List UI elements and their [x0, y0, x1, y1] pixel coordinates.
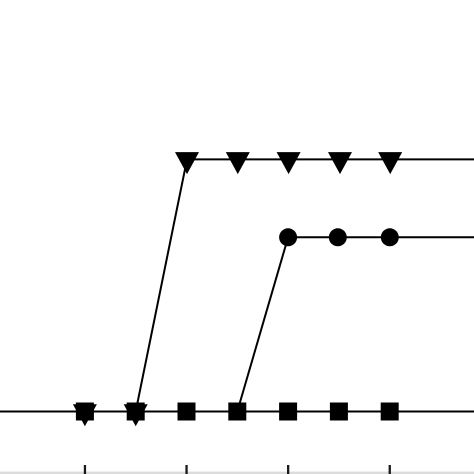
triangle marker T1 (top line) — [175, 152, 199, 174]
square marker S3 — [178, 403, 196, 421]
axis tick 2 — [185, 465, 187, 474]
triangle-series top line — [187, 158, 474, 160]
axis tick 3 — [287, 465, 289, 474]
triangle marker T4 — [328, 152, 352, 174]
square marker S1 — [76, 403, 94, 421]
triangle marker T5 — [378, 152, 402, 174]
square marker S6 — [330, 403, 348, 421]
square marker S7 — [381, 403, 399, 421]
triangle-series rising segment — [136, 159, 187, 411]
circle marker C1 — [279, 228, 297, 246]
triangle marker T3 — [277, 152, 301, 174]
triangle marker T2 — [226, 152, 250, 174]
axis tick 4 — [389, 465, 391, 474]
axis spine (gray) — [0, 472, 474, 474]
square marker S2 — [127, 403, 145, 421]
triangle marker on baseline at x=84.9 — [73, 404, 97, 426]
circle-series rising segment — [237, 237, 288, 411]
circle marker C3 — [381, 228, 399, 246]
circle marker C2 — [329, 228, 347, 246]
axis tick 1 — [84, 465, 86, 474]
square-series baseline — [0, 411, 474, 413]
circle-series top line — [288, 236, 474, 238]
triangle marker on baseline at x=135.7 — [124, 404, 148, 426]
square marker S5 — [279, 403, 297, 421]
square marker S4 — [228, 403, 246, 421]
